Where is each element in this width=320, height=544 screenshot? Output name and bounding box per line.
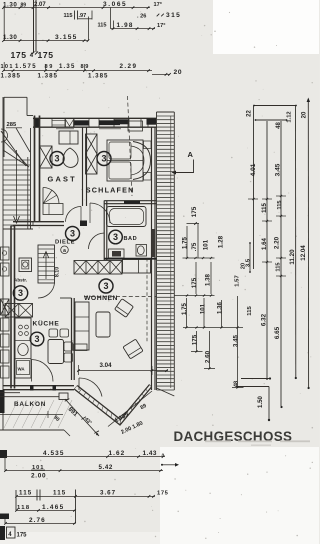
svg-text:115: 115 xyxy=(53,490,66,497)
svg-text:WOHNEN: WOHNEN xyxy=(84,295,118,302)
svg-text:DIELE: DIELE xyxy=(55,240,75,246)
svg-text:a: a xyxy=(162,453,165,459)
svg-text:1.385: 1.385 xyxy=(1,72,21,79)
svg-text:175: 175 xyxy=(38,50,54,60)
svg-text:89: 89 xyxy=(81,64,90,70)
svg-text:115: 115 xyxy=(276,262,282,271)
svg-text:175: 175 xyxy=(11,50,27,60)
svg-text:3.45: 3.45 xyxy=(275,163,282,176)
svg-text:48: 48 xyxy=(276,122,282,129)
svg-text:Abstr.: Abstr. xyxy=(14,278,27,283)
svg-text:WA: WA xyxy=(18,367,26,372)
svg-text:1.98: 1.98 xyxy=(117,22,134,29)
svg-text:1.57: 1.57 xyxy=(234,275,240,287)
svg-text:A: A xyxy=(188,150,194,159)
svg-text:20: 20 xyxy=(240,263,246,269)
svg-text:115: 115 xyxy=(277,200,283,209)
svg-text:115: 115 xyxy=(98,23,107,29)
svg-text:3.04: 3.04 xyxy=(100,362,113,369)
svg-text:5.42: 5.42 xyxy=(99,464,113,471)
svg-text:89: 89 xyxy=(45,64,54,70)
svg-text:2.60: 2.60 xyxy=(204,350,211,363)
svg-text:.75: .75 xyxy=(191,242,198,251)
svg-text:1.64: 1.64 xyxy=(261,237,268,249)
svg-text:115: 115 xyxy=(247,306,253,316)
svg-text:48: 48 xyxy=(234,381,240,387)
svg-text:101: 101 xyxy=(202,239,209,250)
svg-text:315: 315 xyxy=(166,12,181,19)
svg-text:6.65: 6.65 xyxy=(274,326,281,339)
svg-text:118: 118 xyxy=(17,505,31,511)
svg-text:8.10: 8.10 xyxy=(55,267,61,277)
svg-text:.97: .97 xyxy=(79,13,87,19)
svg-text:175: 175 xyxy=(191,206,198,217)
svg-text:4.535: 4.535 xyxy=(43,450,65,457)
svg-text:3.155: 3.155 xyxy=(55,34,78,41)
svg-text:101: 101 xyxy=(1,64,14,70)
svg-text:22: 22 xyxy=(247,110,253,117)
svg-text:115: 115 xyxy=(19,490,32,497)
svg-text:3: 3 xyxy=(34,334,39,344)
svg-text:3.5: 3.5 xyxy=(246,258,252,267)
svg-text:3.065: 3.065 xyxy=(103,1,127,8)
svg-text:175: 175 xyxy=(157,491,169,497)
svg-text:1.50: 1.50 xyxy=(257,395,264,407)
svg-text:3: 3 xyxy=(103,281,108,291)
svg-text:175: 175 xyxy=(17,533,28,539)
svg-text:2.29: 2.29 xyxy=(120,63,138,70)
svg-text:17°: 17° xyxy=(157,23,165,29)
svg-text:4.01: 4.01 xyxy=(250,163,257,176)
svg-text:3: 3 xyxy=(54,154,59,164)
svg-text:1.38: 1.38 xyxy=(204,273,211,285)
svg-text:1.28: 1.28 xyxy=(217,235,224,248)
svg-text:20: 20 xyxy=(174,69,183,76)
svg-text:3: 3 xyxy=(101,154,106,164)
svg-text:1.12: 1.12 xyxy=(287,111,293,122)
svg-text:2.00: 2.00 xyxy=(31,473,46,480)
svg-text:1.575: 1.575 xyxy=(15,64,37,70)
svg-text:3: 3 xyxy=(18,288,23,298)
svg-text:a: a xyxy=(63,248,66,254)
svg-text:20: 20 xyxy=(302,111,308,118)
svg-text:2.76: 2.76 xyxy=(29,517,46,524)
svg-text:175: 175 xyxy=(191,334,198,345)
svg-text:115: 115 xyxy=(64,13,73,19)
svg-text:1.43: 1.43 xyxy=(143,450,157,457)
svg-text:2.20: 2.20 xyxy=(273,236,280,249)
svg-text:KÜCHE: KÜCHE xyxy=(33,319,60,328)
svg-text:175: 175 xyxy=(191,277,198,288)
svg-text:1.385: 1.385 xyxy=(88,72,108,79)
svg-text:285: 285 xyxy=(7,122,17,128)
svg-text:3.67: 3.67 xyxy=(100,490,116,497)
svg-text:GAST: GAST xyxy=(48,175,77,184)
svg-text:BAD: BAD xyxy=(124,236,138,242)
svg-text:. 26: . 26 xyxy=(137,13,146,19)
svg-text:101: 101 xyxy=(199,303,206,314)
svg-text:1.385: 1.385 xyxy=(38,72,58,79)
svg-text:12.04: 12.04 xyxy=(300,245,307,261)
svg-text:1.465: 1.465 xyxy=(42,504,65,511)
svg-text:DACHGESCHOSS: DACHGESCHOSS xyxy=(174,429,293,444)
svg-text:3: 3 xyxy=(70,229,75,239)
svg-text:11.20: 11.20 xyxy=(289,249,296,265)
svg-text:1.36: 1.36 xyxy=(216,301,223,313)
svg-text:6.32: 6.32 xyxy=(261,313,268,326)
svg-text:1.62: 1.62 xyxy=(109,450,126,457)
svg-text:17°: 17° xyxy=(154,2,162,8)
svg-text:1.30: 1.30 xyxy=(3,34,17,41)
svg-text:SCHLAFEN: SCHLAFEN xyxy=(86,186,135,195)
svg-text:1.35: 1.35 xyxy=(59,64,75,70)
svg-text:115: 115 xyxy=(261,202,268,212)
svg-text:3: 3 xyxy=(113,232,118,242)
svg-text:3.45: 3.45 xyxy=(232,334,239,346)
